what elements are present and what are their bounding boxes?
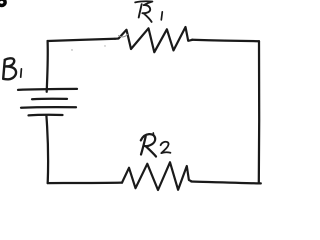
battery B1: middle short plate (32, 98, 67, 101)
wire: R1 to top-right corner (192, 40, 259, 41)
wire: right side vertical (258, 41, 261, 183)
faint pencil arc under R1 first peak (119, 35, 128, 37)
battery B1: second long plate (21, 106, 76, 109)
battery B1: top long plate (18, 89, 77, 90)
stray mark (partial bold glyph, top-left corner) (0, 0, 5, 6)
wire: battery top stub up to top-left corner (47, 41, 48, 92)
R2 label (141, 133, 171, 157)
battery B1 label (3, 58, 21, 79)
wire: top-left corner to R1 (48, 39, 115, 41)
resistor R1 (zigzag) (115, 27, 193, 52)
wire: bottom-right corner to R2 (191, 182, 261, 184)
wire: left side, bottom-left corner up to battery (46, 116, 48, 184)
R1 label (135, 1, 162, 22)
speck near top wire (71, 49, 72, 50)
resistor R2 (zigzag) (122, 162, 192, 190)
wire: R2 to bottom-left corner (48, 181, 122, 184)
battery B1: bottom short plate (29, 114, 63, 117)
speck under top wire (104, 45, 105, 46)
